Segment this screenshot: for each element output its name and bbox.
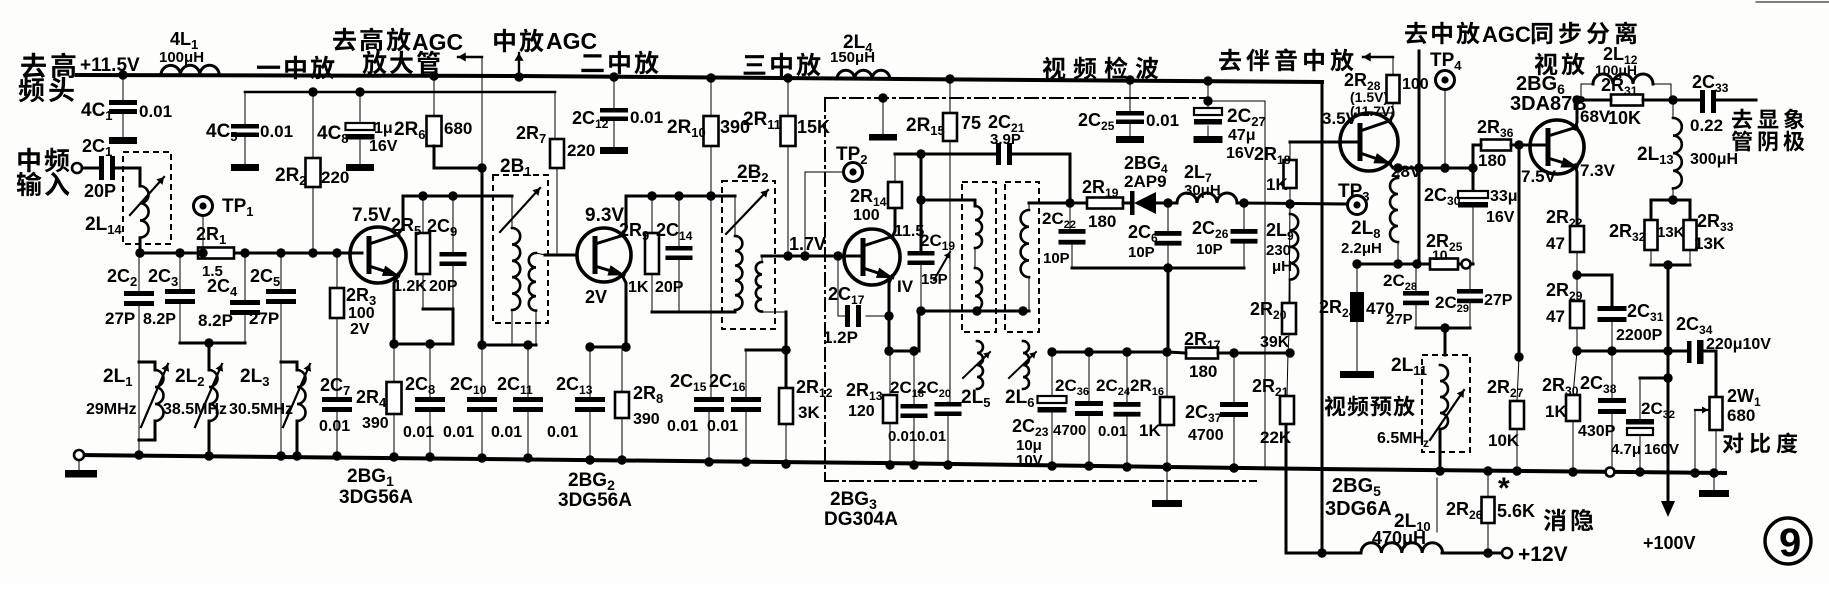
svg-text:2V: 2V xyxy=(585,287,607,307)
node 2C38 bus circle xyxy=(1606,468,1615,477)
wire supply rail drop to +12V line xyxy=(1321,82,1324,553)
node det primary top xyxy=(916,195,925,204)
resistor 2R1 1.5 xyxy=(198,248,234,259)
svg-text:180: 180 xyxy=(1088,212,1116,231)
wire 2BG6 collector xyxy=(1575,100,1577,129)
resistor 2R12 3K xyxy=(779,388,793,424)
svg-text:+12V: +12V xyxy=(1518,543,1568,566)
resistor 2R29 47 xyxy=(1570,301,1584,328)
svg-text:47: 47 xyxy=(1546,234,1565,253)
svg-text:20P: 20P xyxy=(84,181,116,201)
node 2B1 bottom xyxy=(523,340,532,349)
transformer 2L14 xyxy=(123,152,171,244)
svg-text:10P: 10P xyxy=(1196,241,1223,258)
transformer 2L11 6.5MHz xyxy=(1422,355,1470,452)
test point TP3 xyxy=(1348,196,1367,215)
resistor 2R14 100 xyxy=(888,182,902,208)
capacitor 2C24 0.01 xyxy=(1126,352,1128,402)
arrow +100V xyxy=(1661,501,1675,517)
inductor det secondary xyxy=(1021,210,1029,277)
node +12V line junctions xyxy=(1317,548,1326,557)
capacitor 4C8 1u 16V xyxy=(359,92,361,123)
wire +12V feed line right xyxy=(1442,552,1505,555)
wire 2L1 join xyxy=(139,362,155,370)
svg-text:680: 680 xyxy=(1727,406,1755,425)
svg-text:30.5MHz: 30.5MHz xyxy=(229,401,293,418)
shield box bottom edge xyxy=(825,480,1256,482)
capacitor 2C15 0.01 xyxy=(694,397,724,402)
node 2R27 top xyxy=(1514,352,1523,361)
capacitor 2C26 10P xyxy=(1243,203,1245,229)
wire AGC arrow to 放大管 xyxy=(458,56,482,58)
wire 2BG1 collector xyxy=(398,196,403,234)
resistor 2R9 1K xyxy=(651,196,653,233)
wire x921 link xyxy=(920,154,923,252)
svg-text:27P: 27P xyxy=(1386,311,1413,328)
label 二中放 xyxy=(581,54,603,72)
node 2R6 rail junction xyxy=(429,71,438,80)
svg-text:1K: 1K xyxy=(1139,421,1161,440)
svg-text:7.3V: 7.3V xyxy=(1580,161,1616,180)
wire 27P bottoms xyxy=(1416,327,1470,330)
svg-text:9: 9 xyxy=(1779,521,1801,565)
node 2C17-emitter xyxy=(884,311,893,320)
node 2C32 tap xyxy=(1663,373,1672,382)
inductor 2L12 100uH xyxy=(1581,84,1593,100)
resistor 2R13 120 xyxy=(883,395,897,423)
svg-text:220: 220 xyxy=(321,168,349,187)
wire 2L14 top stub xyxy=(139,168,142,186)
capacitor 2C30 33u 16V xyxy=(1458,191,1488,198)
svg-text:0.01: 0.01 xyxy=(917,428,946,445)
resistor 2R8 390 xyxy=(615,392,629,418)
transistor 2BG3 xyxy=(844,229,900,285)
node 2BG6 base dot xyxy=(1514,140,1523,149)
capacitor 2C4 8.2P xyxy=(244,253,246,300)
svg-text:1.7V: 1.7V xyxy=(789,234,826,254)
wire 2R6 bottom to AGC line xyxy=(434,146,482,168)
svg-text:22K: 22K xyxy=(1260,428,1292,447)
wire video out row xyxy=(1577,350,1687,353)
wire 2R31 left xyxy=(1577,99,1611,102)
svg-text:2AP9: 2AP9 xyxy=(1124,172,1167,191)
capacitor 2C23 10u 10V xyxy=(1051,352,1053,396)
svg-text:0.01: 0.01 xyxy=(443,424,474,441)
wire 13K pair top xyxy=(1651,199,1690,202)
svg-text:10V: 10V xyxy=(1016,452,1043,469)
label 去中放AGC 同步分离 xyxy=(1405,22,1427,44)
svg-text:1.2K: 1.2K xyxy=(393,278,427,295)
ground shield stub xyxy=(882,98,884,134)
wire emitter to 2C13 xyxy=(590,346,626,349)
capacitor 2C12 0.01 xyxy=(609,72,618,81)
wire 2BG3 emitter xyxy=(889,276,892,351)
resistor 2R19 180 xyxy=(1087,198,1123,209)
node filter top dots xyxy=(1047,347,1056,356)
transformer 2B1 xyxy=(493,175,548,323)
svg-text:DG304A: DG304A xyxy=(824,509,898,530)
resistor 2R16 1K xyxy=(1166,352,1168,397)
capacitor 2C36 4700 xyxy=(1088,352,1090,401)
svg-text:20P: 20P xyxy=(655,279,684,296)
svg-text:z: z xyxy=(1423,436,1429,450)
wire 2L3 join xyxy=(281,362,297,370)
node TP3 tap xyxy=(1285,199,1294,208)
wire 2BG2 emitter xyxy=(622,275,626,347)
node RC row dots xyxy=(1352,259,1361,268)
node 4C8 junction xyxy=(355,87,364,96)
svg-text:2V: 2V xyxy=(350,321,370,338)
wire 2R5/2C9 bottoms xyxy=(423,309,453,344)
node 2BG2 coll dots xyxy=(647,191,656,200)
svg-text:2200P: 2200P xyxy=(1616,327,1663,344)
svg-text:390: 390 xyxy=(633,411,660,428)
node 2R17 dots xyxy=(1229,348,1238,357)
svg-text:470μH: 470μH xyxy=(1372,528,1426,548)
svg-text:10K: 10K xyxy=(1608,108,1641,128)
svg-text:3DG56A: 3DG56A xyxy=(558,490,632,511)
wire 2BG1 base line xyxy=(140,252,198,255)
ground bus left end xyxy=(74,450,84,460)
figure number 9 xyxy=(1765,518,1811,564)
label 消隐 xyxy=(1436,478,1438,532)
wire emitter RC row xyxy=(1357,263,1473,266)
svg-text:0.01: 0.01 xyxy=(491,424,522,441)
wire 2BG5 emitter xyxy=(1390,164,1473,168)
inductor det primary upper xyxy=(975,206,982,248)
wire AGC takeoff line xyxy=(1418,51,1421,168)
label 去伴音中放 xyxy=(1219,49,1241,71)
node rail-4C1 junction xyxy=(118,70,127,79)
terminal IF input xyxy=(72,163,82,173)
wire 2B1 bottom node xyxy=(482,344,536,347)
node 2R12 top xyxy=(781,345,790,354)
svg-text:430P: 430P xyxy=(1578,423,1616,440)
diode 2BG4 2AP9 xyxy=(1130,191,1135,215)
resistor 2R30 1K xyxy=(1573,351,1577,395)
resistor 2R32 13K xyxy=(1645,220,1658,250)
resistor 2R6 680 xyxy=(433,76,435,116)
svg-text:1K: 1K xyxy=(628,279,649,296)
svg-text:47: 47 xyxy=(1546,307,1565,326)
transistor 2BG5 xyxy=(1340,113,1398,171)
svg-text:0.01: 0.01 xyxy=(667,418,698,435)
wire 2C31 top link xyxy=(1577,275,1612,306)
wire 13K left xyxy=(1650,200,1653,220)
ground 4C5 xyxy=(231,164,259,171)
resistor 2R20 39K xyxy=(1289,204,1290,303)
svg-text:0.01: 0.01 xyxy=(319,418,350,435)
resistor 2R5 1.2K xyxy=(422,196,424,233)
inductor 2L13 300uH xyxy=(1672,100,1674,118)
node 13K bottom xyxy=(1663,260,1672,269)
svg-text:6.5MH: 6.5MH xyxy=(1377,430,1424,447)
wire diode to 2L7 xyxy=(1156,202,1177,205)
inductor 2B1 primary xyxy=(512,228,520,310)
svg-text:33μ: 33μ xyxy=(1490,188,1518,205)
test point TP1 xyxy=(194,197,213,216)
svg-text:10P: 10P xyxy=(1043,250,1070,267)
transformer detector secondary box xyxy=(1005,182,1039,332)
label 一中放 xyxy=(257,66,280,69)
resistor 2R2 220 xyxy=(312,92,314,158)
svg-text:IV: IV xyxy=(897,277,914,296)
inductor 2L2 38.5MHz xyxy=(209,370,218,421)
wire c19 bottom link xyxy=(918,311,921,351)
ground 2C12 xyxy=(600,147,628,154)
capacitor 2C37 4700 xyxy=(1233,353,1235,402)
capacitor 4C1 xyxy=(122,75,124,100)
wire to det transformer xyxy=(921,200,975,206)
wire 2C21 right xyxy=(1013,154,1070,203)
wire 2L1 to bus xyxy=(139,421,155,440)
inductor 2L1 29MHz xyxy=(155,370,164,421)
label 去显象管阴极 xyxy=(1732,109,1752,130)
svg-text:7.5V: 7.5V xyxy=(1521,167,1557,186)
svg-text:390: 390 xyxy=(362,415,389,432)
capacitor 2C19 15P xyxy=(908,251,935,256)
svg-text:3.9P: 3.9P xyxy=(990,131,1021,148)
inductor det primary lower xyxy=(975,268,982,310)
svg-text:10K: 10K xyxy=(1488,431,1520,450)
wire 2BG5 collector xyxy=(1390,113,1393,121)
node base wire junctions xyxy=(135,248,144,257)
svg-text:3DG56A: 3DG56A xyxy=(339,487,413,508)
svg-text:+100V: +100V xyxy=(1643,533,1696,553)
capacitor 2C27 47u 16V xyxy=(1203,76,1212,85)
svg-text:0.01: 0.01 xyxy=(403,424,434,441)
wire 2R36 to base xyxy=(1511,144,1545,147)
capacitor 2C13 0.01 xyxy=(589,347,591,397)
shield box top edge xyxy=(825,97,1205,99)
node emitter2BG3 xyxy=(884,346,893,355)
svg-text:8.2P: 8.2P xyxy=(198,311,233,330)
capacitor 2C32 4.7u 160V xyxy=(1639,378,1641,419)
wire 2R9/2C14 bottoms xyxy=(652,311,735,314)
svg-text:13K: 13K xyxy=(1694,234,1726,253)
node 2L7 right dot xyxy=(1239,198,1248,207)
label 放大管 xyxy=(362,51,386,75)
svg-text:AGC.: AGC. xyxy=(1482,22,1537,47)
capacitor 2C2 27P xyxy=(138,253,140,291)
svg-text:39K: 39K xyxy=(1260,334,1290,351)
resistor 2R36 180 xyxy=(1481,140,1511,151)
wire to CRT cathode xyxy=(1716,99,1756,102)
ground 2C25 xyxy=(1116,136,1144,143)
wire 2BG2 collector rail xyxy=(626,195,735,198)
wire secondary supply rail xyxy=(245,91,555,94)
wire +100V line xyxy=(1667,265,1670,510)
ground 4C8 xyxy=(346,164,374,171)
node 2R29 top xyxy=(1572,270,1581,279)
node emitter dots 2BG5 xyxy=(1393,163,1402,172)
svg-text:1K: 1K xyxy=(1266,175,1288,194)
potentiometer 2W1 680 xyxy=(1710,397,1723,430)
resistor 2R7 220 xyxy=(554,92,556,139)
wire det bottom xyxy=(919,310,1029,313)
capacitor 2C11 0.01 xyxy=(527,345,529,397)
resistor 2R11 15K xyxy=(783,73,792,82)
label 去高放AGC xyxy=(333,28,356,51)
test point TP2 xyxy=(844,163,863,182)
svg-text:27P: 27P xyxy=(249,309,279,328)
label 三中放 xyxy=(744,55,766,75)
wire +12V feed line xyxy=(1286,552,1361,555)
node bus dots left xyxy=(134,450,143,459)
capacitor 2C38 430P xyxy=(1611,351,1613,398)
wire AGC takeoff lower xyxy=(1418,168,1421,264)
svg-text:0.22: 0.22 xyxy=(1690,116,1723,135)
ground 2R24 xyxy=(1340,371,1374,378)
label 中放AGC xyxy=(494,29,515,52)
inductor 2L8 2.2uH xyxy=(1397,168,1399,178)
resistor 2R17 180 xyxy=(1186,348,1218,359)
svg-text:0.01: 0.01 xyxy=(888,428,917,445)
wire ground bus xyxy=(79,455,1725,473)
svg-text:15P: 15P xyxy=(921,271,948,288)
svg-text:4700: 4700 xyxy=(1188,427,1224,444)
inductor 2L5 core xyxy=(977,341,983,389)
wire 2R17 left xyxy=(1168,352,1186,353)
wire base to 2R27 xyxy=(1518,145,1521,357)
svg-text:0.01: 0.01 xyxy=(547,424,578,441)
resistor 2R28 100 xyxy=(1387,75,1400,103)
inductor 2L7 30uH xyxy=(1177,193,1237,203)
capacitor 2C20 0.01 xyxy=(947,401,949,403)
svg-text:10P: 10P xyxy=(1128,244,1155,261)
wire 2B2 base link xyxy=(762,255,860,258)
wire 2L11 to bus xyxy=(1439,429,1442,471)
node out row dots xyxy=(1607,346,1616,355)
svg-text:100: 100 xyxy=(1402,76,1429,93)
node base dots 2BG3 xyxy=(783,251,792,260)
capacitor 2C21 3.9P xyxy=(996,143,1001,165)
wire video filter top xyxy=(1052,351,1168,354)
resistor 2R27 10K xyxy=(1517,357,1519,401)
node det out dot xyxy=(1065,198,1074,207)
wire 2BG2 collector xyxy=(622,196,626,235)
wire 2C16 to 2R12 xyxy=(746,349,786,352)
wire 2R21 bottom to +12V line xyxy=(1285,424,1288,553)
wire det output xyxy=(1029,202,1087,205)
svg-text:180: 180 xyxy=(1189,362,1217,381)
svg-text:3K: 3K xyxy=(798,403,820,422)
node AGC-2R6 junction xyxy=(477,163,486,172)
shield box left edge xyxy=(824,98,826,481)
resistor 2R10 390 xyxy=(706,73,715,82)
wire AGC line down xyxy=(481,168,484,345)
capacitor 2C34 220u 10V xyxy=(1687,341,1692,363)
wire 13K pair bottom xyxy=(1651,264,1690,267)
ground right section xyxy=(1713,473,1715,490)
svg-text:29MHz: 29MHz xyxy=(86,401,137,418)
resistor 2R33 13K xyxy=(1684,220,1697,250)
svg-text:1μ: 1μ xyxy=(374,120,393,137)
node 13K top xyxy=(1668,195,1677,204)
arrow 2B1 tuning xyxy=(500,188,540,232)
wire input to 2C1 xyxy=(82,167,99,170)
wire 2L3 to bus xyxy=(296,421,299,456)
svg-text:68V: 68V xyxy=(1580,107,1611,126)
svg-text:680: 680 xyxy=(444,119,472,138)
svg-text:2.2μH: 2.2μH xyxy=(1341,240,1382,257)
svg-text:16V: 16V xyxy=(369,138,398,155)
wire top right edge mark xyxy=(1756,1,1829,3)
svg-text:38.5MHz: 38.5MHz xyxy=(163,401,227,418)
inductor 2L10 470uH xyxy=(1361,543,1443,553)
node 2L12 left xyxy=(1572,95,1581,104)
wire trap2 to bus xyxy=(208,421,211,456)
svg-text:0.01: 0.01 xyxy=(139,102,172,121)
wire main +11.5V supply rail xyxy=(77,75,1322,82)
inductor 2B2 secondary xyxy=(756,262,762,312)
svg-text:4.7μ: 4.7μ xyxy=(1611,441,1641,458)
capacitor 2C5 27P xyxy=(280,253,282,289)
node emitter junction xyxy=(389,339,398,348)
wire collector rail 2BG1 xyxy=(403,195,512,198)
node det filter gnd xyxy=(1163,263,1172,272)
resistor 2R4 390 xyxy=(387,382,402,414)
transistor 2BG6 xyxy=(1530,120,1584,174)
svg-text:220: 220 xyxy=(567,141,595,160)
svg-text:180: 180 xyxy=(1478,151,1506,170)
wire 2B1 base link xyxy=(545,254,577,257)
transformer 2B2 xyxy=(722,181,775,329)
label 中频输入 xyxy=(18,148,39,172)
arrow 2B2 tuning xyxy=(726,190,768,234)
node AGC arrow base xyxy=(514,72,523,81)
capacitor 4C5 0.01 xyxy=(244,92,246,124)
resistor 2R24 470 xyxy=(1356,264,1358,292)
wire diode link xyxy=(1123,202,1132,205)
label 视放 xyxy=(1535,53,1558,76)
capacitor 2C14 20P xyxy=(678,196,680,246)
capacitor 2C18 0.01 xyxy=(913,351,915,404)
inductor 4L1 100uH xyxy=(161,65,219,75)
node det bottom dots xyxy=(916,306,925,315)
capacitor 2C9 20P xyxy=(452,196,454,252)
svg-text:4700: 4700 xyxy=(1053,422,1086,439)
svg-text:0.01: 0.01 xyxy=(630,108,663,127)
terminal +12V xyxy=(1502,548,1512,558)
resistor 2R15 75 xyxy=(945,74,954,83)
transistor 2BG2 xyxy=(577,228,631,282)
wire 2C34 to pot xyxy=(1703,351,1716,397)
test point TP4 xyxy=(1436,71,1455,90)
svg-text:47μ: 47μ xyxy=(1228,127,1256,144)
wire 2BG3 collector xyxy=(892,208,895,238)
resistor 2R31 10K xyxy=(1611,95,1643,106)
wire 2R17 right xyxy=(1218,352,1290,355)
capacitor 2C1 20P xyxy=(99,156,104,180)
wire 2R36 left chain xyxy=(1473,145,1481,191)
transformer detector primary box xyxy=(962,182,996,332)
inductor 2B1 secondary xyxy=(529,253,536,311)
svg-text:230: 230 xyxy=(1266,242,1291,259)
node trap2 junction xyxy=(204,338,213,347)
svg-text:0.01: 0.01 xyxy=(707,418,738,435)
svg-text:AGC: AGC xyxy=(546,28,597,54)
transistor 2BG1 xyxy=(350,227,406,283)
wire det to TP3 xyxy=(1237,203,1348,204)
ground 4C1 xyxy=(109,137,137,144)
inductor 2L3 30.5MHz xyxy=(297,370,306,421)
label 视频检波 xyxy=(1043,57,1066,80)
label 视频预放 xyxy=(1325,396,1346,417)
node 2BG2 emitter node xyxy=(621,342,630,351)
wire 中放AGC arrow xyxy=(518,53,520,77)
resistor 2R3 100 xyxy=(336,253,338,288)
